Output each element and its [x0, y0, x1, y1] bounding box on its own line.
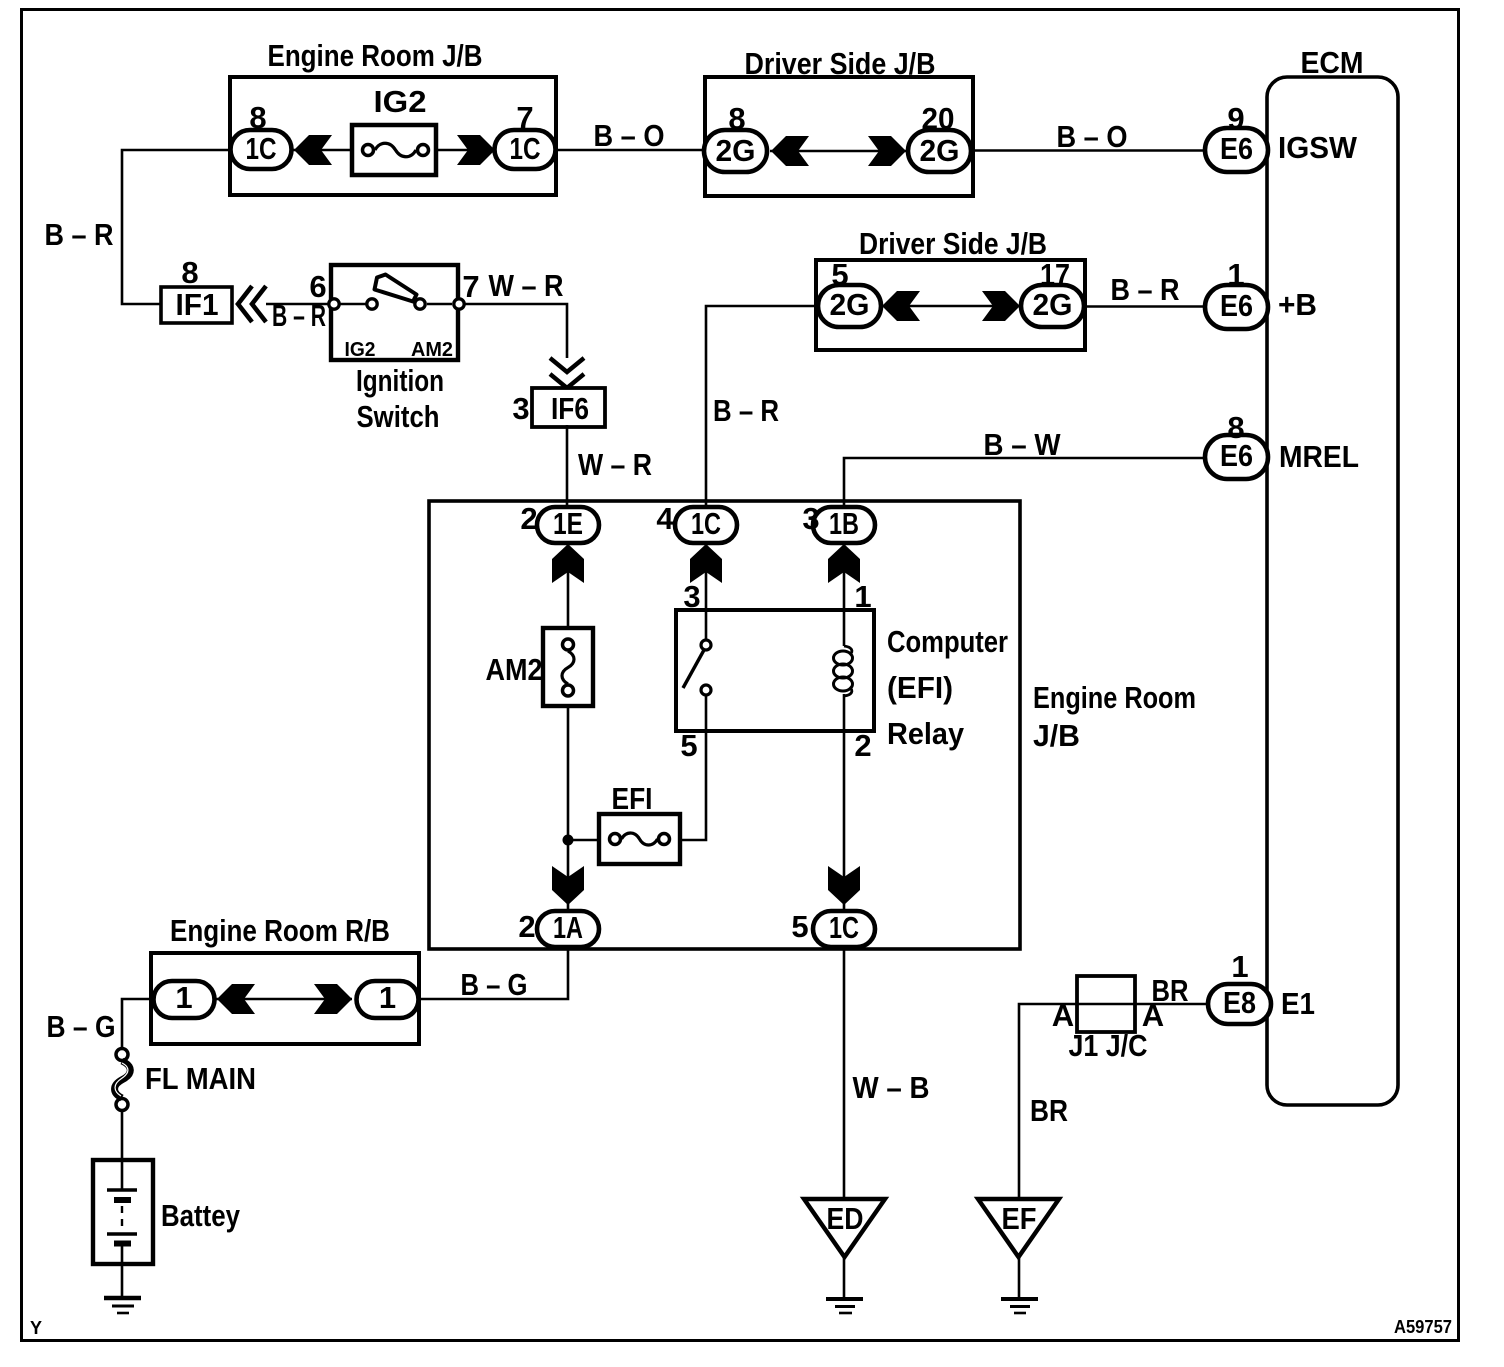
svg-text:Switch: Switch: [357, 399, 440, 434]
svg-text:AM2: AM2: [486, 652, 543, 687]
connector E6 pin 8, MREL: [1205, 410, 1359, 479]
relay: Computer (EFI) Relay: [676, 579, 1008, 763]
connector 2G pin 20: [908, 101, 971, 172]
svg-text:5: 5: [831, 257, 848, 292]
ECM module: [1267, 45, 1398, 1105]
connector E6 pin 1, +B: [1205, 257, 1317, 329]
svg-text:A59757: A59757: [1394, 1317, 1452, 1337]
inline connector chevrons above IF6: [550, 358, 584, 388]
connector 1 (left): [154, 980, 215, 1018]
connector 1A pin 2: [518, 909, 599, 947]
svg-text:1: 1: [854, 579, 871, 614]
wire between 2G connectors: [770, 150, 906, 153]
svg-text:E1: E1: [1281, 986, 1315, 1021]
connector arrow (right) in Engine Room J/B: [457, 135, 495, 165]
wire EFI fuse up to relay pin 5: [680, 731, 706, 840]
ignition switch SW: [309, 265, 479, 434]
wire EF to ground: [1018, 1257, 1021, 1299]
svg-text:7: 7: [516, 100, 533, 135]
junction connector J1 J/C: [1052, 973, 1189, 1063]
connector arrow (left) in Driver Side J/B: [771, 136, 809, 166]
svg-text:B – R: B – R: [45, 217, 114, 252]
svg-text:1C: 1C: [829, 910, 859, 945]
connector arrow (right) in R/B: [314, 984, 352, 1014]
inline connector chevrons at IF1: [238, 286, 266, 322]
connector 1C pin 7: [495, 100, 556, 169]
ground symbol under EF: [1001, 1299, 1038, 1313]
wire B-R from 2G5 down to 1C4: [706, 306, 818, 507]
svg-text:1: 1: [175, 980, 192, 1015]
battery BAT: [93, 1160, 241, 1298]
connector arrow (left) in Driver Side J/B 2: [882, 291, 920, 321]
svg-text:AM2: AM2: [411, 339, 453, 361]
connector 1E pin 2: [520, 501, 599, 543]
svg-text:E8: E8: [1223, 985, 1256, 1020]
svg-text:ECM: ECM: [1301, 45, 1364, 80]
connector arrow (left) in Engine Room J/B: [294, 135, 332, 165]
svg-text:B – R: B – R: [1111, 272, 1180, 307]
svg-text:20: 20: [922, 101, 955, 136]
wire B-G from 1A to Engine Room R/B: [419, 947, 568, 1002]
wire W-R from IF6 down to 1E: [567, 425, 652, 507]
svg-text:4: 4: [656, 501, 674, 536]
connector arrow (right) in Driver Side J/B: [868, 136, 906, 166]
svg-text:W – B: W – B: [853, 1070, 930, 1105]
svg-text:1C: 1C: [691, 506, 721, 541]
svg-text:3: 3: [802, 501, 819, 536]
junction block Driver Side J/B (top): [705, 46, 973, 196]
drawing code A59757: [1394, 1317, 1452, 1337]
connector 1C pin 8: [231, 100, 292, 169]
svg-text:1: 1: [1227, 257, 1244, 292]
wire B-O from 2G20 to ECM IGSW: [971, 119, 1205, 154]
svg-text:Engine Room J/B: Engine Room J/B: [268, 38, 483, 73]
junction node: [563, 835, 574, 846]
connector E8 pin 1, E1: [1208, 949, 1315, 1024]
svg-text:8: 8: [181, 255, 198, 290]
wire W-R from switch pin 7 to IF6: [465, 268, 567, 358]
connector 2G pin 8: [704, 101, 767, 172]
connector 1C pin 5: [791, 909, 875, 947]
ground point EF: [978, 1199, 1059, 1257]
junction block Driver Side J/B (second): [816, 226, 1085, 350]
connector arrow up at 1C4: [690, 544, 722, 583]
connector arrow down at 1C5: [828, 866, 860, 905]
connector 1B pin 3: [802, 501, 875, 543]
svg-text:Ignition: Ignition: [356, 363, 444, 398]
svg-text:B – O: B – O: [1057, 119, 1128, 154]
wire ED to ground: [843, 1257, 846, 1299]
svg-text:B – W: B – W: [984, 427, 1062, 462]
svg-text:6: 6: [309, 269, 326, 304]
svg-text:IF6: IF6: [551, 391, 589, 426]
svg-text:IGSW: IGSW: [1278, 130, 1358, 165]
svg-text:2G: 2G: [1033, 287, 1073, 322]
connector E6 pin 9, IGSW: [1205, 101, 1358, 172]
connector 2G pin 17: [1021, 257, 1084, 327]
ground symbol under ED: [826, 1299, 863, 1313]
svg-text:9: 9: [1227, 101, 1244, 136]
connector IF1 pin 8: [161, 255, 232, 323]
wire 1B to relay pin 1: [843, 543, 846, 610]
svg-text:2G: 2G: [920, 133, 960, 168]
svg-text:W – R: W – R: [489, 268, 564, 303]
svg-text:Battey: Battey: [161, 1198, 241, 1233]
svg-text:Driver Side J/B: Driver Side J/B: [859, 226, 1047, 261]
wire AM2 fuse down to 1A with EFI branch junction: [567, 706, 570, 911]
connector arrow up at 1E: [552, 544, 584, 583]
svg-text:1A: 1A: [553, 910, 583, 945]
svg-text:IG2: IG2: [345, 339, 376, 361]
svg-text:(EFI): (EFI): [887, 670, 953, 705]
svg-text:1E: 1E: [553, 506, 583, 541]
svg-text:EF: EF: [1002, 1201, 1037, 1236]
svg-text:B – G: B – G: [461, 967, 528, 1002]
svg-text:Engine Room R/B: Engine Room R/B: [170, 913, 390, 948]
svg-text:ED: ED: [827, 1201, 864, 1236]
wire FL MAIN to battery: [121, 1111, 124, 1190]
svg-text:W – R: W – R: [578, 447, 652, 482]
wire B-R from 1C8 down to IF1: [45, 150, 232, 304]
svg-text:3: 3: [683, 579, 700, 614]
connector arrow (right) in Driver Side J/B 2: [982, 291, 1020, 321]
svg-text:2: 2: [520, 501, 537, 536]
wire B-G from R/B to FL MAIN: [47, 999, 155, 1048]
svg-text:Driver Side J/B: Driver Side J/B: [745, 46, 936, 81]
wire B-R from IF1 to ignition switch pin 6: [266, 298, 330, 333]
svg-text:BR: BR: [1152, 973, 1189, 1008]
wire BR from EF up to J1 J/C: [1019, 1004, 1208, 1199]
relay block Engine Room R/B: [151, 913, 419, 1044]
connector 1 (right): [357, 980, 419, 1018]
wire B-W from 1B up to ECM MREL: [844, 427, 1205, 507]
connector arrow up at 1B: [828, 544, 860, 583]
wire B-O from 1C7 to Driver Side J/B: [556, 118, 705, 153]
svg-text:B – R: B – R: [713, 393, 779, 428]
svg-text:+B: +B: [1278, 287, 1317, 322]
fuse AM2: [486, 628, 594, 706]
fuse EFI: [599, 781, 680, 864]
wire relay pin 2 down to 1C5: [843, 731, 846, 911]
ground below battery: [104, 1298, 141, 1313]
svg-text:2G: 2G: [716, 133, 756, 168]
junction block Engine Room J/B (top): [230, 38, 556, 195]
svg-text:J1 J/C: J1 J/C: [1069, 1028, 1148, 1063]
wire between connectors in R/B: [214, 998, 352, 1001]
svg-text:Relay: Relay: [887, 716, 965, 751]
fuse IG2: [352, 84, 436, 175]
svg-text:2G: 2G: [830, 287, 870, 322]
svg-text:J/B: J/B: [1033, 718, 1080, 753]
wire 1C4 to relay pin 3: [705, 543, 708, 610]
svg-text:7: 7: [462, 269, 479, 304]
svg-text:2: 2: [854, 728, 871, 763]
junction block Engine Room J/B (center): [429, 501, 1196, 949]
svg-text:IG2: IG2: [374, 84, 427, 119]
svg-text:IF1: IF1: [176, 287, 219, 322]
wire junction to EFI fuse: [573, 839, 599, 842]
svg-text:B – O: B – O: [594, 118, 665, 153]
connector 2G pin 5: [818, 257, 881, 327]
svg-text:EFI: EFI: [612, 781, 653, 816]
ground point ED: [804, 1199, 885, 1257]
svg-text:8: 8: [249, 100, 266, 135]
wire 1C pin8 to B-O bus inside J/B: [291, 149, 496, 152]
svg-text:5: 5: [680, 728, 697, 763]
svg-text:17: 17: [1040, 257, 1070, 292]
svg-text:Y: Y: [30, 1318, 42, 1338]
svg-text:8: 8: [728, 101, 745, 136]
svg-text:E6: E6: [1220, 131, 1253, 166]
wire B-R from 2G17 to ECM +B: [1084, 272, 1205, 307]
wire W-B from 1C5 to ED: [844, 947, 930, 1199]
connector 1C pin 4: [656, 501, 737, 543]
connector IF6 pin 3: [512, 388, 605, 427]
svg-text:BR: BR: [1030, 1093, 1068, 1128]
wire between 2G5 and 2G17: [881, 305, 1020, 308]
svg-text:3: 3: [512, 391, 529, 426]
svg-text:1C: 1C: [510, 131, 541, 166]
svg-text:5: 5: [791, 909, 808, 944]
svg-text:1C: 1C: [246, 131, 277, 166]
connector arrow (left) in R/B: [217, 984, 255, 1014]
svg-text:FL MAIN: FL MAIN: [145, 1061, 256, 1096]
svg-text:Engine Room: Engine Room: [1033, 680, 1196, 715]
svg-text:MREL: MREL: [1279, 439, 1359, 474]
svg-text:2: 2: [518, 909, 535, 944]
fusible link FL MAIN: [115, 1049, 256, 1111]
connector arrow down at 1A: [552, 866, 584, 905]
svg-text:1: 1: [379, 980, 396, 1015]
wire 1E to AM2 fuse: [567, 543, 570, 628]
svg-text:B – G: B – G: [47, 1009, 116, 1044]
svg-text:1B: 1B: [829, 506, 859, 541]
svg-text:8: 8: [1227, 410, 1244, 445]
svg-text:Computer: Computer: [887, 624, 1008, 659]
svg-text:E6: E6: [1220, 288, 1253, 323]
svg-text:1: 1: [1231, 949, 1248, 984]
drawing code Y: [30, 1318, 42, 1338]
